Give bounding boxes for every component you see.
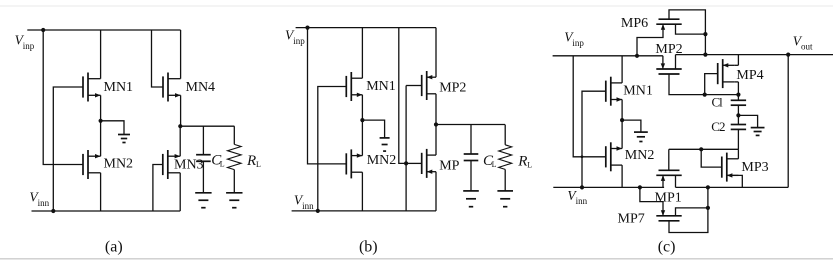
junction on V_inp rail (panel b) — [305, 26, 309, 30]
junction MP7 node on output bottom wire (panel c) — [706, 185, 710, 189]
svg-text:MN4: MN4 — [186, 80, 216, 95]
wire MP2 drain to output node (panel b) — [435, 94, 437, 125]
svg-text:R: R — [246, 153, 256, 169]
wire output to capacitor CL (panel a) — [202, 126, 204, 155]
capacitor C1 (panel c) — [731, 99, 746, 101]
wire V_inn rail (panel c) — [553, 186, 664, 188]
wire MP4 drain down to C1 (panel c) — [734, 81, 738, 83]
arrow MP1 source (panel c) — [661, 175, 665, 181]
wire MN1 source down to mid node (panel a) — [100, 95, 102, 121]
wire MP3 drain to output bottom wire (panel c) — [727, 175, 743, 187]
wire V_inp to MN2 gate (panel a) — [43, 30, 83, 165]
wire V_out drop (panel c) — [787, 55, 789, 188]
wire MN4 drain to V_inp rail corner (panel a) — [180, 30, 182, 79]
junction MN1 gate wire on V_inn rail (panel b) — [316, 209, 320, 213]
svg-text:MN3: MN3 — [174, 158, 204, 173]
transistor MP1 (panel c, horizontal) — [659, 169, 680, 171]
wire V_inp rail to MN2 gate (panel c) — [573, 56, 606, 157]
node mid-left junction (panel c) — [620, 118, 624, 122]
ground (panel b mid) — [380, 137, 390, 139]
wire mid node to MN2 drain (panel b) — [361, 120, 363, 156]
wire MP2 source to V_inp rail corner (panel b) — [435, 28, 437, 78]
wire CL bottom to ground (panel b) — [470, 161, 472, 191]
wire output bottom (panel c) — [676, 186, 789, 188]
svg-text:R: R — [517, 154, 527, 170]
transistor MN1 (panel a) — [82, 76, 84, 97]
wire output top rail to V_out (panel c) — [676, 54, 833, 56]
svg-text:MP2: MP2 — [439, 80, 466, 95]
wire MP6 drain to diode node (panel c) — [676, 24, 706, 34]
wire V_inn bottom rail (panel a) — [32, 210, 181, 212]
wire MP7 diode node up to output wire (panel c) — [707, 187, 709, 208]
wire MN1 drain to V_inp rail (panel b) — [361, 28, 363, 79]
wire output to resistor RL (panel b) — [504, 125, 506, 145]
wire mid node to ground stub (panel a) — [101, 121, 124, 134]
wire MN4 gate to V_inp rail (panel a) — [152, 30, 164, 87]
wire MP2 source from V_inp rail corner (panel c) — [662, 56, 664, 69]
wire MN3 bottom to V_inn rail corner (panel a) — [179, 173, 181, 211]
wire MN3 gate to V_inn rail (panel a) — [153, 165, 163, 212]
transistor MP2 (panel c, horizontal) — [659, 73, 680, 75]
svg-text:MN1: MN1 — [104, 80, 134, 95]
wire MN2 source to V_inn rail (panel a) — [100, 173, 102, 211]
wire mid node to ground (panel c) — [622, 120, 641, 132]
junction MN1-gate/MN2-gate crossing (panel c) — [581, 155, 584, 158]
resistor RL (panel a) — [228, 144, 242, 169]
wire MP6 source to V_inp rail (panel c) — [637, 24, 663, 56]
transistor MN1 (panel b) — [345, 76, 347, 97]
wire MN1 source to mid node (panel c) — [621, 100, 623, 121]
svg-text:MN1: MN1 — [366, 79, 396, 94]
svg-text:MP4: MP4 — [736, 68, 763, 83]
arrow MP7 source (panel c) — [661, 210, 665, 216]
transistor MN2 (panel c) — [605, 146, 607, 167]
wire C1 bottom to C2 node (panel c) — [737, 105, 739, 115]
node output junction (panel b) — [434, 122, 438, 126]
transistor MP6 (panel c, horizontal) — [659, 18, 680, 20]
junction MP3 gate tap (panel c) — [699, 147, 703, 151]
wire gate node to V_inn rail (panel b) — [405, 163, 407, 211]
transistor MN1 (panel c) — [605, 81, 607, 102]
ground (panel a mid) — [118, 134, 130, 136]
junction V_out drop (panel c) — [786, 53, 790, 57]
resistor RL (panel b) — [499, 145, 512, 170]
transistor MP4 (panel c) — [717, 63, 719, 84]
arrow MP6 source (panel c) — [661, 24, 665, 30]
svg-text:inp: inp — [572, 38, 584, 48]
transistor MP3 (panel c) — [721, 157, 723, 178]
node A mid-left junction (panel a) — [99, 119, 103, 123]
svg-text:L: L — [527, 161, 532, 170]
wire V_inp rail (panel c) — [553, 55, 663, 57]
wire MN3 top to output node (panel a) — [179, 126, 181, 156]
transistor MP2 (panel b) — [421, 75, 423, 96]
wire mid node to ground stub (panel b) — [362, 120, 384, 137]
wire MP6 gate to diode node (panel c) — [669, 10, 705, 34]
ground under CL (panel a) — [195, 192, 211, 194]
svg-text:L: L — [492, 160, 497, 169]
transistor MN2 (panel b) — [345, 153, 347, 174]
ground (panel c mid) — [634, 131, 648, 133]
wire MP7 drain to diode node (panel c) — [676, 208, 708, 216]
junction MP6 source on V_inp rail (panel c) — [635, 54, 639, 58]
wire mid node to MN2 drain (panel c) — [621, 120, 623, 148]
wire V_inp to MN2 gate (panel b) — [308, 28, 347, 164]
wire MP3 gate from tap (panel c) — [701, 149, 722, 167]
wire C2 bottom to MP3 node (panel c) — [737, 129, 739, 149]
svg-text:inn: inn — [302, 201, 314, 211]
wire node down to MP3 source lead (panel c) — [737, 149, 739, 159]
capacitor CL (panel a) — [196, 154, 211, 156]
wire MP2 gate to gate node (panel c) — [669, 74, 705, 95]
wire MP7 source from V_inn rail (panel c) — [640, 187, 663, 215]
ground (panel c right) — [751, 127, 765, 129]
node output junction (panel a) — [178, 124, 182, 128]
wire CL bottom to ground (panel a) — [202, 161, 204, 192]
transistor MP (panel b) — [421, 153, 423, 174]
arrow MP2 source (panel c) — [661, 63, 665, 69]
wire MP6 diode node to output rail (panel c) — [704, 34, 706, 55]
transistor MN3 (panel a) — [162, 154, 164, 175]
svg-text:MP6: MP6 — [621, 16, 648, 31]
wire gate node to C1 top (panel c) — [705, 94, 739, 96]
junction on V_inp rail (panel a) — [41, 28, 45, 32]
junction C1/C2/ground node (panel c) — [736, 113, 740, 117]
wire MP2 gate lead (panel b) — [406, 85, 422, 87]
wire mid node to MN2 drain (panel a) — [100, 121, 102, 156]
svg-text:L: L — [220, 160, 225, 169]
wire V_inp top rail (panel b) — [296, 27, 436, 29]
wire MP4 gate down to gate node (panel c) — [705, 74, 718, 95]
svg-text:(a): (a) — [105, 238, 123, 255]
wire output to capacitor CL (panel b) — [470, 125, 472, 155]
svg-text:inn: inn — [38, 198, 50, 208]
wire MP2 gate down to MP gate node (panel b) — [405, 86, 407, 164]
wire MP drain to V_inn rail corner (panel b) — [435, 172, 437, 211]
wire V_inn bottom rail (panel b) — [292, 210, 436, 212]
junction MP7-source tap on V_inn rail (panel c) — [638, 185, 642, 189]
wire MN4 source to output node (panel a) — [180, 95, 182, 126]
svg-text:L: L — [256, 160, 261, 169]
capacitor C2 (panel c) — [731, 124, 746, 126]
svg-text:MP3: MP3 — [741, 160, 768, 175]
wire MP source(top) to output node (panel b) — [435, 125, 437, 156]
wire node to ground (panel c right) — [738, 115, 757, 127]
transistor MN4 (panel a) — [162, 76, 164, 97]
svg-text:out: out — [801, 42, 813, 52]
svg-text:MP7: MP7 — [618, 211, 645, 226]
wire MN1 gate to V_inn rail (panel a) — [53, 87, 83, 211]
junction MN1 gate wire on V_inn rail (panel a) — [51, 209, 55, 213]
svg-text:MP1: MP1 — [655, 191, 682, 206]
wire node to C2 (panel c) — [737, 115, 739, 124]
svg-text:inp: inp — [23, 41, 35, 51]
wire MP2 drain to output rail corner (panel c) — [675, 55, 677, 69]
junction MP2/MP gate node (panel b) — [404, 161, 408, 165]
ground under RL (panel a) — [226, 192, 242, 194]
svg-text:inp: inp — [293, 36, 305, 46]
wire MN1 gate to V_inn rail (panel c) — [582, 91, 606, 187]
wire MP4 source to output rail (panel c) — [734, 64, 738, 66]
wire output node to load (panel a) — [180, 125, 234, 127]
svg-text:(b): (b) — [359, 238, 378, 255]
node MP6 diode junction (panel c) — [703, 32, 707, 36]
ground under RL (panel b) — [497, 190, 513, 192]
wire MN1 drain to V_inp rail (panel a) — [100, 30, 102, 79]
wire MP1 drain to output bottom wire (panel c) — [675, 175, 677, 187]
wire RL bottom to ground (panel b) — [504, 169, 506, 190]
wire MN1 gate to V_inn rail (panel b) — [318, 87, 347, 211]
wire MN1 drain to V_inp rail (panel c) — [621, 56, 623, 83]
wire output to resistor RL (panel a) — [233, 126, 235, 144]
wire MP7 gate to diode node (panel c) — [669, 208, 708, 233]
junction C1 top / MP4 drain (panel c) — [736, 93, 740, 97]
wire MP1 source from V_inn rail corner (panel c) — [662, 175, 664, 187]
junction MP2/MP4 gate node (panel c) — [703, 93, 707, 97]
junction diode node on output rail (panel c) — [703, 53, 707, 57]
wire V_inp rail to MP gates (panel b) — [399, 28, 406, 164]
svg-text:Cl: Cl — [712, 94, 724, 109]
transistor MN2 (panel a) — [82, 154, 84, 175]
wire MP3-top node horizontal (panel c) — [669, 148, 739, 150]
wire V_inp top rail (panel a) — [27, 29, 180, 31]
wire RL bottom to ground (panel a) — [233, 170, 235, 193]
wire MN2 source to V_inn rail (panel b) — [361, 172, 363, 211]
capacitor CL (panel b) — [464, 153, 479, 155]
wire MP1 gate drop (panel c) — [668, 149, 670, 170]
wire MN1 source down to mid node (panel b) — [361, 95, 363, 120]
svg-text:MP: MP — [439, 158, 459, 173]
wire gate node to MP gate (panel b) — [406, 162, 422, 164]
ground under CL (panel b) — [463, 190, 479, 192]
junction MP7 diode node (panel c) — [706, 206, 710, 210]
transistor MP7 (panel c, horizontal) — [659, 220, 680, 222]
svg-text:(c): (c) — [658, 238, 676, 255]
wire output node to load (panel b) — [436, 124, 505, 126]
junction MN1 gate wire on V_inn rail (panel c) — [580, 185, 584, 189]
svg-text:C2: C2 — [711, 119, 725, 134]
svg-text:MN1: MN1 — [623, 83, 653, 98]
node mid-left junction (panel b) — [360, 118, 364, 122]
svg-text:inn: inn — [576, 196, 588, 206]
wire MN2 source to V_inn rail (panel c) — [621, 165, 623, 187]
svg-text:MN2: MN2 — [104, 156, 134, 171]
svg-text:MN2: MN2 — [625, 148, 655, 163]
svg-text:MN2: MN2 — [367, 153, 397, 168]
